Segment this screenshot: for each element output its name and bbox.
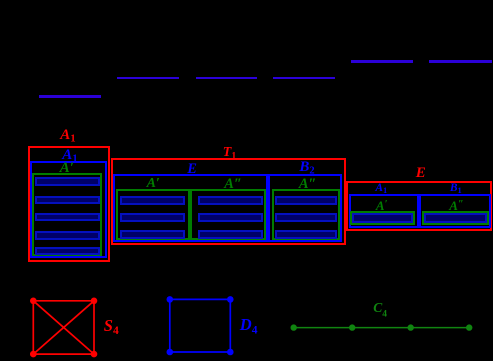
wire: top underline row2 segment b [196,77,257,80]
box A1 blue (right group left) [349,194,419,227]
box Adblprime green column3 [272,189,340,240]
bar left table row 1 [35,177,100,185]
label Adblprime green (right group right) [449,199,463,212]
box B1 blue (right group right) [419,194,491,227]
label Aprime green column1 [147,177,160,191]
bar middle column3 row3 [275,230,337,238]
box Aprime green (right group left) [350,211,415,226]
bar middle column3 row2 [275,213,337,221]
box Aprime green column1 [116,189,190,240]
wire: top underline row1 segment b [429,60,492,63]
bar middle column1 row1 [120,196,185,204]
box T1 red (middle group outer) [111,158,346,246]
box E red (right group outer) [346,181,493,230]
box E blue (middle group columns 1-2) [113,174,268,242]
wire: top underline row1 segment a [351,60,413,63]
bar middle column2 row1 [198,196,263,204]
wire: top underline row3 segment [39,95,102,98]
label Adblprime green column2 [224,177,242,192]
box A1 blue (left group middle) [30,161,107,259]
label T1 red (middle group) [223,146,236,161]
graph S4 vertices [30,298,97,358]
label A1 blue (left group) [62,148,77,165]
graph C4 path vertices [291,324,473,330]
box B2 blue (middle group column 3) [268,174,342,242]
wire: top underline row2 segment c [273,77,335,80]
box A1 red (left group outer) [28,146,111,262]
label D4 blue (graph) [240,317,258,337]
label Aprime green (left group) [60,161,74,176]
graph C4 path edges [294,327,470,329]
bar right group right [424,213,487,223]
bar middle column3 row1 [275,196,337,204]
label Aprime green (right group left) [376,199,388,212]
label E blue (middle group) [187,162,197,177]
label A1 red (left group) [60,128,75,145]
bar left table row 2 [35,196,100,204]
label A1 blue (right group) [375,183,387,195]
bar middle column1 row2 [120,213,185,221]
label B2 blue (middle group) [299,160,314,177]
label E red (right group) [416,166,426,181]
bar right group left [352,213,413,223]
graph S4 complete graph K4 edges [33,301,94,354]
label C4 green (graph) [373,301,387,320]
bar middle column2 row3 [198,230,263,238]
bar left table row 3 [35,213,100,221]
box Adblprime green (right group right) [422,211,489,226]
label Adblprime green column3 [299,177,317,192]
label B1 blue (right group) [450,183,462,195]
bar middle column1 row3 [120,230,185,238]
wire: top underline row2 segment a [117,77,179,80]
graph D4 cycle C4 edges [170,299,231,352]
label S4 red (graph) [104,318,119,338]
graph D4 vertices [167,296,234,355]
bar left table row 4 [35,231,100,239]
box Adblprime green column2 [190,189,267,240]
box Aprime green (left group inner) [32,173,102,256]
bar middle column2 row2 [198,213,263,221]
bar left table row 5 [35,247,100,255]
